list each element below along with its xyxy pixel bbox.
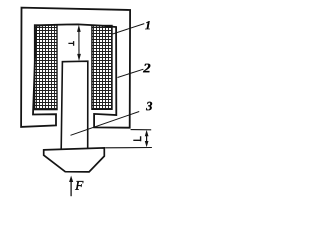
- svg-text:F: F: [74, 178, 84, 193]
- svg-text:1: 1: [145, 18, 151, 32]
- svg-text:2: 2: [142, 60, 151, 75]
- svg-text:3: 3: [145, 99, 152, 113]
